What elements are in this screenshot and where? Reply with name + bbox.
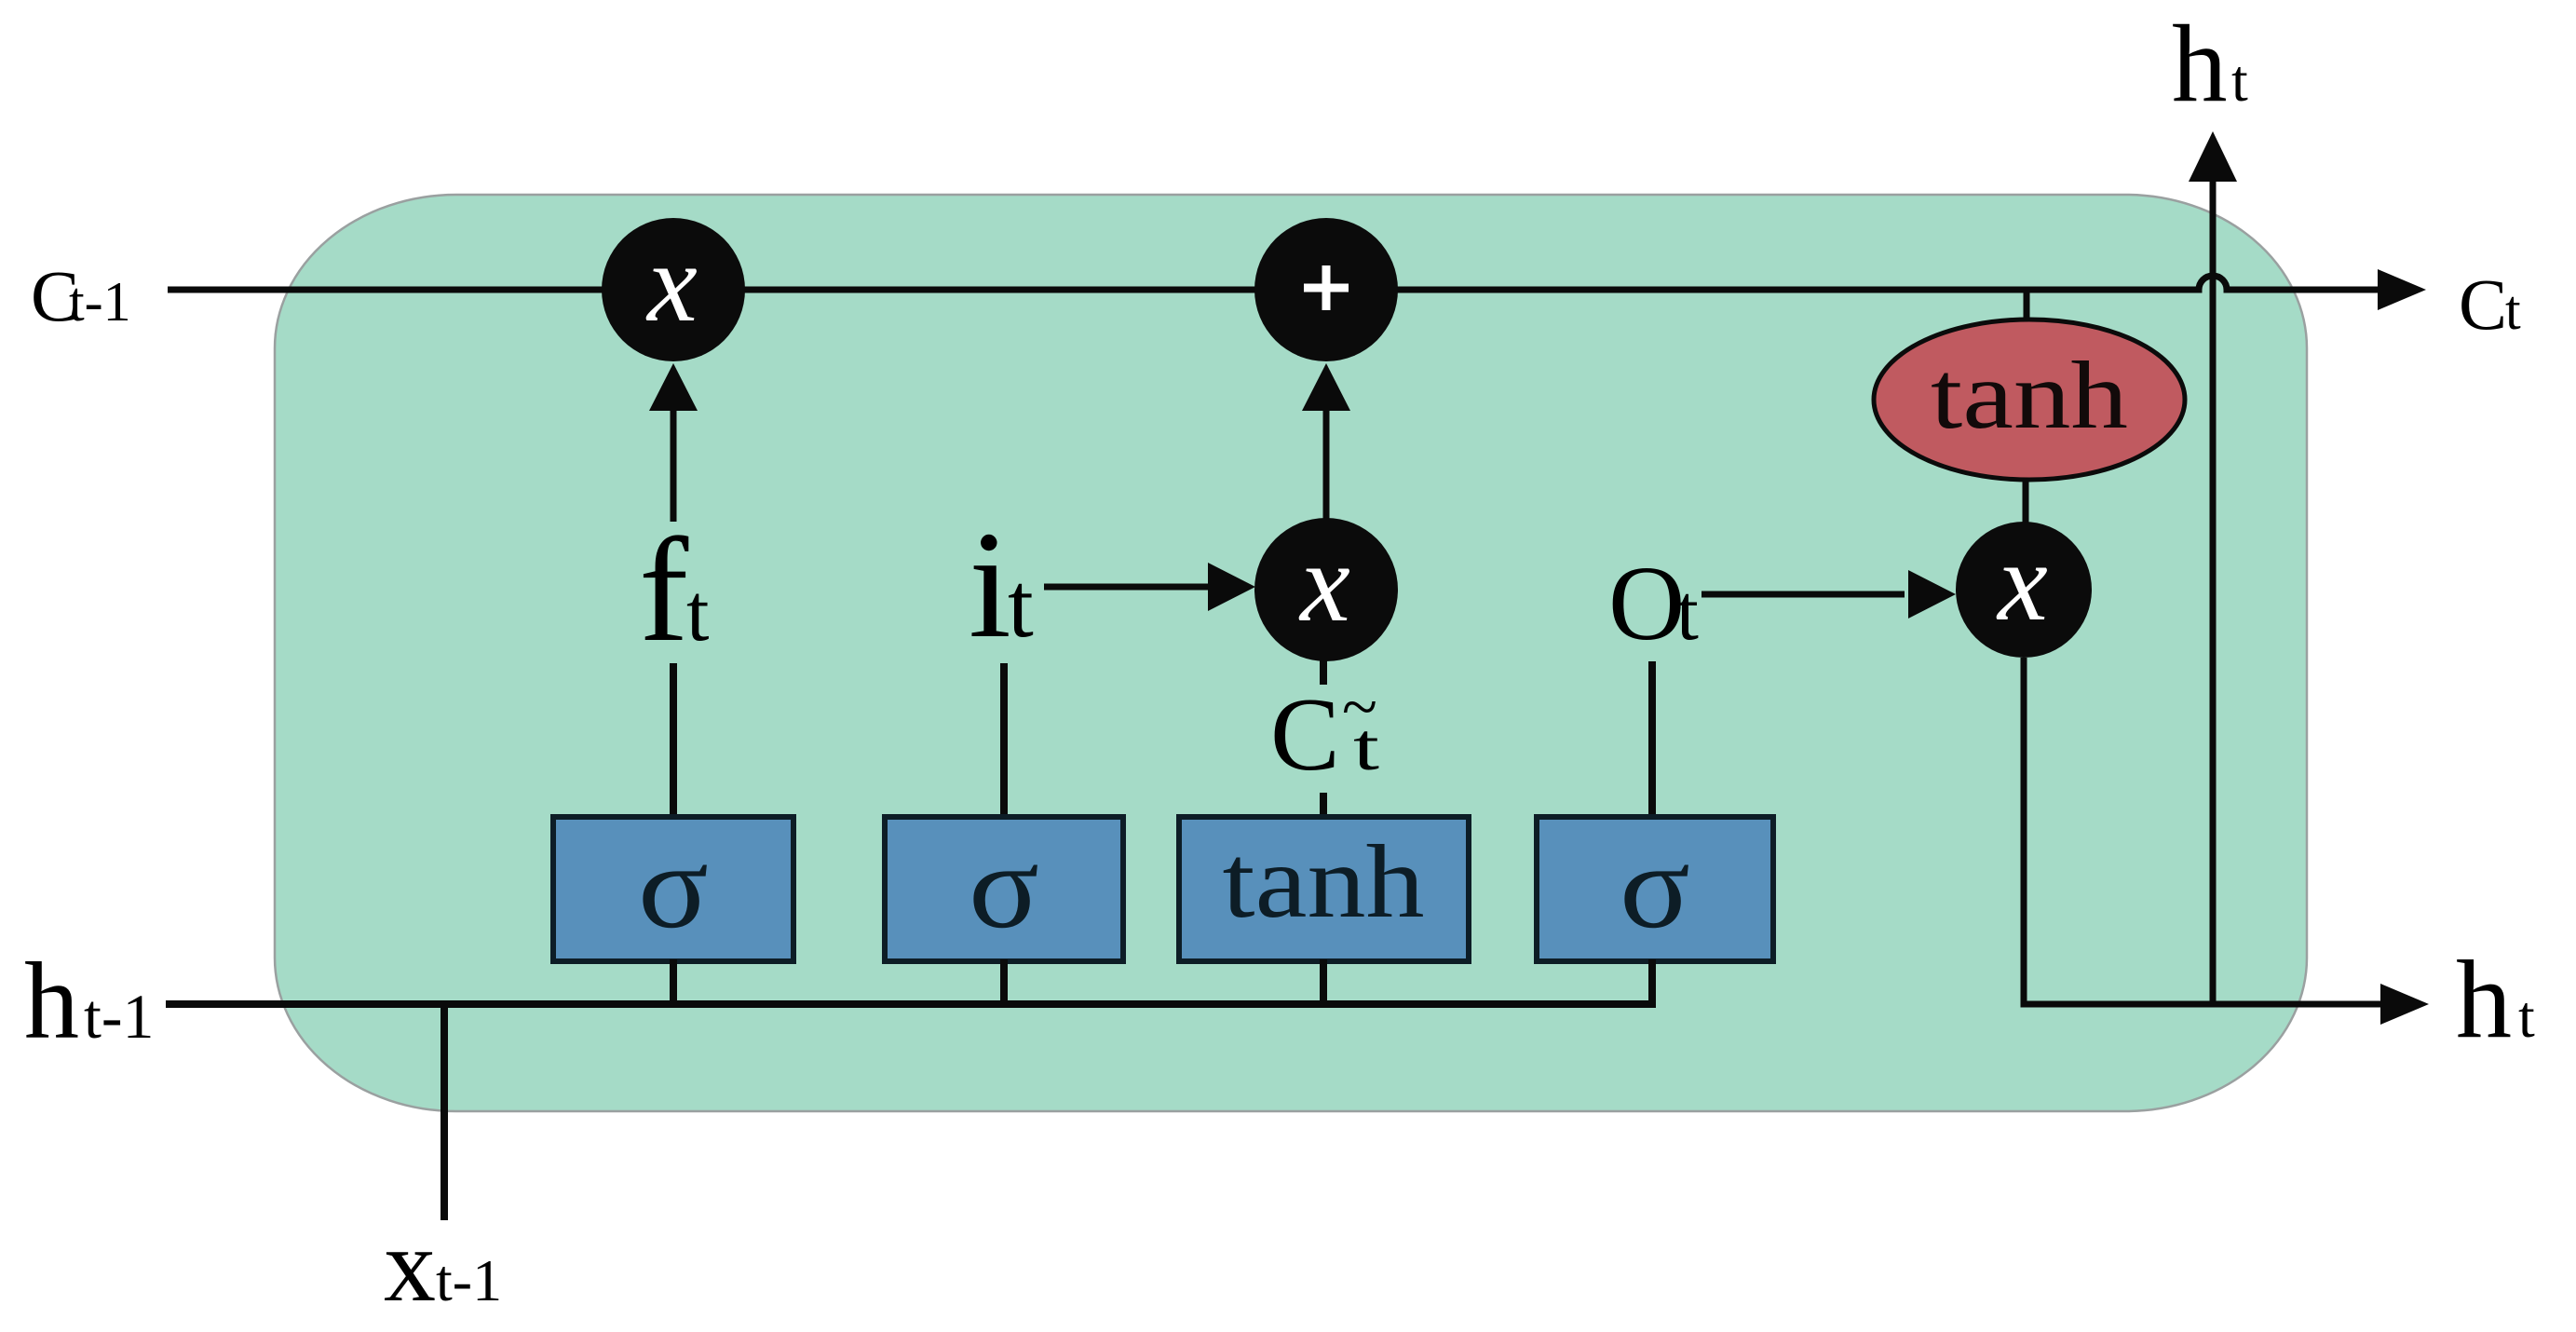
svg-text:x: x	[384, 1208, 436, 1324]
wire: ht vertical up with arrow	[2210, 181, 2217, 1004]
svg-text:t: t	[686, 568, 709, 659]
wire: cell state line Ct-1 to Ct with hop over ht line	[168, 276, 2380, 290]
svg-text:h: h	[2172, 2, 2228, 125]
wire: box3 down stub	[1320, 959, 1327, 1004]
svg-text:σ: σ	[638, 820, 709, 954]
tanh ellipse	[1874, 319, 2185, 480]
svg-text:t: t	[2505, 279, 2521, 341]
wire: cell line to tanh stub	[2024, 290, 2030, 319]
svg-text:t-1: t-1	[436, 1247, 502, 1313]
svg-text:σ: σ	[1620, 820, 1690, 954]
svg-text:t: t	[1676, 567, 1699, 657]
svg-text:C: C	[2459, 264, 2507, 345]
svg-text:t-1: t-1	[84, 981, 155, 1052]
wire: sigma box1 up stub	[670, 663, 677, 817]
wire: xt-1 input drop	[441, 1004, 448, 1220]
wire: sigma box4 up stub	[1648, 661, 1656, 817]
multiplier circle (input gate)	[1254, 518, 1398, 661]
sigma gate box 4 (output)	[1537, 817, 1773, 961]
svg-text:O: O	[1608, 544, 1685, 662]
wire: mid multiplier down stub	[1320, 660, 1327, 685]
wire: tanh box3 up stub	[1320, 793, 1327, 817]
wire: mid multiplier to adder with arrow	[1323, 410, 1330, 519]
svg-text:f: f	[639, 507, 689, 673]
svg-text:x: x	[645, 221, 698, 346]
sigma gate box 2 (input)	[885, 817, 1123, 961]
wire: sigma box2 up stub	[1000, 663, 1008, 817]
svg-text:x: x	[1298, 521, 1350, 646]
multiplier circle (output gate)	[1956, 522, 2092, 658]
svg-text:t: t	[1008, 553, 1034, 657]
svg-text:t: t	[2231, 48, 2248, 114]
svg-text:h: h	[24, 940, 79, 1062]
wire: ft to multiplier with arrow	[671, 410, 677, 522]
wire: box2 down stub	[1000, 959, 1008, 1004]
svg-text:i: i	[969, 499, 1011, 670]
LSTM cell body	[275, 195, 2307, 1111]
wire: bottom ht-1 line	[166, 1000, 1656, 1008]
multiplier circle (forget gate)	[602, 218, 745, 361]
adder circle	[1254, 218, 1398, 361]
svg-text:t: t	[1353, 710, 1379, 784]
wire: right multiplier down and out to ht with arrow	[2024, 658, 2382, 1004]
wire: box4 down stub	[1648, 959, 1656, 1004]
wire: it to mid multiplier with arrow	[1044, 584, 1208, 591]
tanh gate box 3 (candidate)	[1179, 817, 1469, 961]
wire: box1 down stub	[670, 959, 677, 1004]
arrowhead Ct	[2378, 269, 2426, 310]
svg-text:tanh: tanh	[1223, 824, 1425, 940]
svg-text:h: h	[2456, 937, 2512, 1061]
wire: Ot to right multiplier with arrow	[1702, 591, 1905, 598]
svg-text:t: t	[2518, 984, 2535, 1050]
svg-text:t-1: t-1	[69, 271, 131, 333]
svg-text:x: x	[1996, 520, 2048, 645]
sigma gate box 1 (forget)	[553, 817, 793, 961]
svg-text:C: C	[1270, 677, 1340, 793]
svg-text:σ: σ	[969, 820, 1039, 954]
wire: tanh to right multiplier stub	[2023, 480, 2029, 523]
svg-text:tanh: tanh	[1931, 342, 2128, 449]
